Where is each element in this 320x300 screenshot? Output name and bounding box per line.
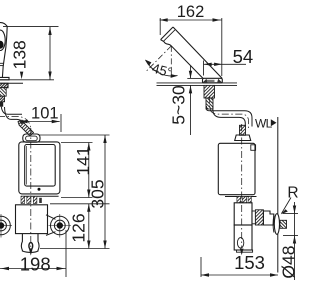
svg-text:Ø48: Ø48 bbox=[278, 246, 298, 279]
svg-text:305: 305 bbox=[88, 179, 108, 208]
svg-text:153: 153 bbox=[234, 252, 265, 273]
svg-text:141: 141 bbox=[73, 146, 93, 175]
svg-text:101: 101 bbox=[31, 105, 59, 123]
svg-text:126: 126 bbox=[69, 213, 89, 242]
svg-text:45°: 45° bbox=[150, 61, 174, 81]
svg-text:198: 198 bbox=[20, 253, 51, 274]
svg-text:54: 54 bbox=[233, 46, 254, 67]
svg-text:5~30: 5~30 bbox=[168, 85, 188, 125]
svg-text:WL: WL bbox=[255, 117, 273, 131]
svg-text:162: 162 bbox=[177, 3, 205, 21]
svg-text:R: R bbox=[287, 184, 298, 201]
svg-text:138: 138 bbox=[9, 40, 29, 69]
